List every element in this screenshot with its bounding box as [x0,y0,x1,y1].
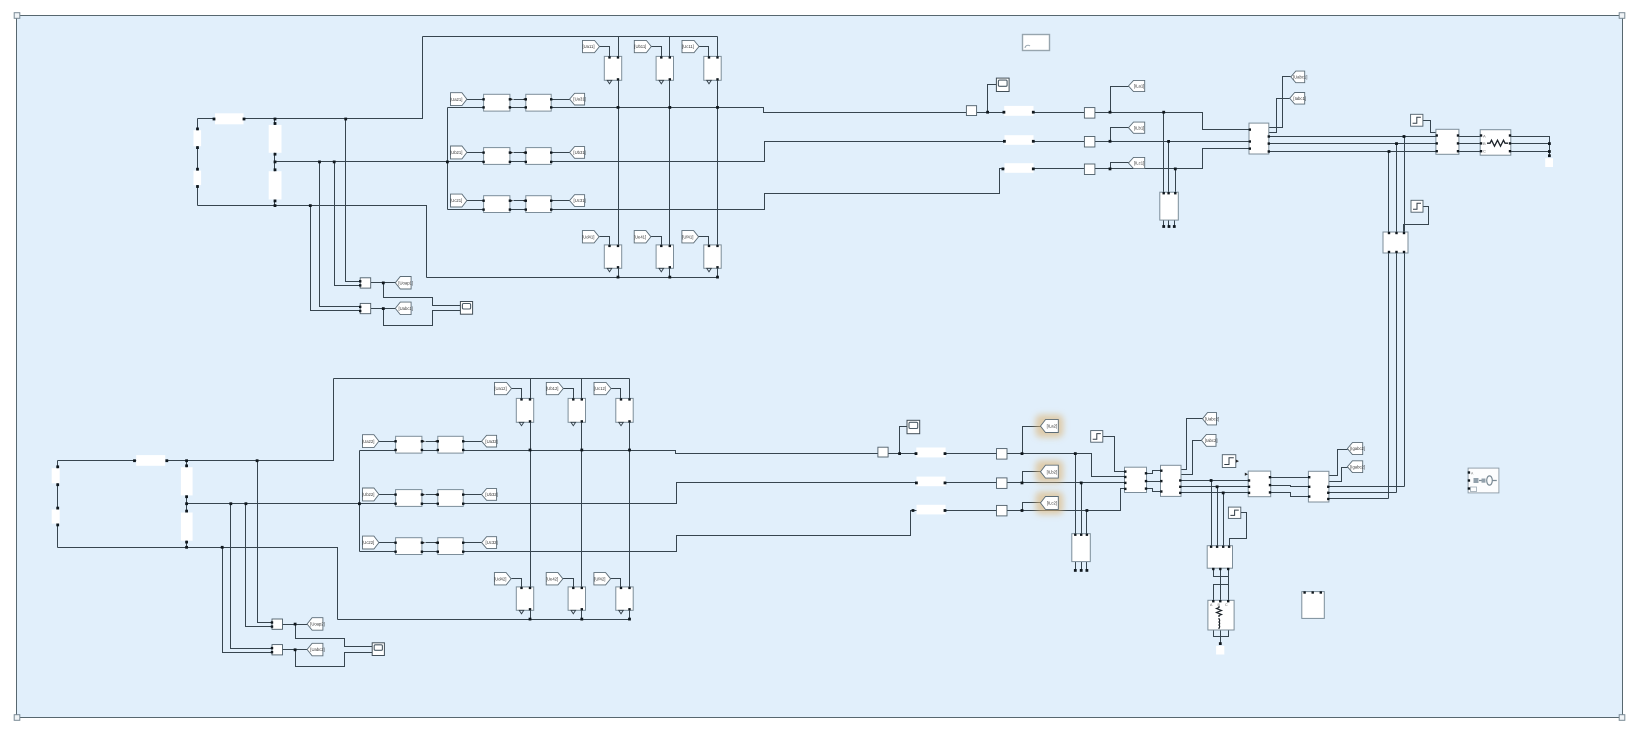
svg-text:[ILb1]: [ILb1] [1134,125,1144,130]
svg-text:[Ua21]: [Ua21] [450,97,462,102]
svg-text:[ILa2]: [ILa2] [1047,424,1057,429]
svg-text:[Iabc2]: [Iabc2] [1205,438,1218,443]
svg-text:[Uabc1]: [Uabc1] [398,306,412,311]
svg-text:[Ua12]: [Ua12] [494,386,506,391]
svg-text:[Uabc2]: [Uabc2] [1205,416,1219,421]
svg-text:C: C [1483,149,1486,154]
svg-text:[Ue41]: [Ue41] [634,234,646,239]
svg-text:[ILc1]: [ILc1] [1134,161,1144,166]
svg-text:[Ub11]: [Ub11] [634,44,646,49]
svg-text:[Uoap1]: [Uoap1] [398,280,413,285]
svg-text:[Ua31]: [Ua31] [573,97,585,102]
svg-text:[Uc11]: [Uc11] [682,44,694,49]
svg-text:[Ua32]: [Ua32] [485,439,497,444]
svg-text:[Ue42]: [Ue42] [546,576,558,581]
svg-text:[Uc22]: [Uc22] [362,540,374,545]
svg-text:[ILc2]: [ILc2] [1047,501,1057,506]
svg-text:[Uc32]: [Uc32] [486,540,498,545]
svg-text:[Uc31]: [Uc31] [574,198,586,203]
svg-text:[Uf41]: [Uf41] [682,234,693,239]
svg-text:[Ub22]: [Ub22] [362,492,374,497]
svg-text:[Ub31]: [Ub31] [573,150,585,155]
svg-text:[Ub32]: [Ub32] [485,492,497,497]
svg-text:[Iabc1]: [Iabc1] [1293,96,1306,101]
svg-text:[Ua22]: [Ua22] [362,439,374,444]
svg-text:[Ua11]: [Ua11] [582,44,594,49]
svg-text:B: B [1483,141,1486,146]
svg-text:[ILb2]: [ILb2] [1047,469,1057,474]
svg-text:[Uabc2]: [Uabc2] [310,647,324,652]
svg-text:[Uc12]: [Uc12] [594,386,606,391]
svg-text:[Ub12]: [Ub12] [546,386,558,391]
svg-text:[Uf42]: [Uf42] [594,576,605,581]
svg-text:[Igabc2]: [Igabc2] [1350,464,1365,469]
svg-text:[Ud41]: [Ud41] [582,234,594,239]
svg-text:[Ud42]: [Ud42] [494,576,506,581]
svg-text:[Uc21]: [Uc21] [450,198,462,203]
svg-text:C: C [1225,603,1228,607]
svg-text:[ILa1]: [ILa1] [1134,84,1144,89]
svg-text:[Uoap2]: [Uoap2] [310,622,325,627]
svg-text:[Ub21]: [Ub21] [450,150,462,155]
svg-text:A: A [1483,134,1486,139]
svg-text:[Igabc2]: [Igabc2] [1350,446,1365,451]
svg-text:[Uabc1]: [Uabc1] [1293,75,1307,80]
